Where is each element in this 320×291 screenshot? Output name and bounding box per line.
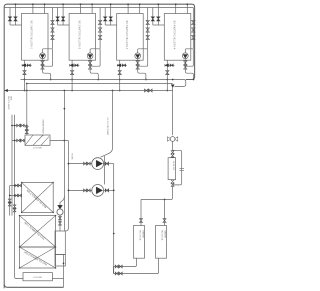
U1 pump [40, 53, 46, 59]
oil tank [23, 273, 52, 281]
svg-text:STEAM TRACE: STEAM TRACE [41, 120, 44, 135]
U3 inlet stem 2 with valve [110, 4, 112, 25]
U1 inlet stem 1 with valve [9, 8, 11, 26]
U4 drain valve [166, 71, 169, 75]
U1 inlet stem 2 with valve [15, 4, 17, 25]
HX feed drop pipe [26, 84, 28, 136]
filter feed pipe [172, 86, 174, 135]
chamber outlet pipe [63, 255, 65, 288]
tower inlet line B with valves [10, 195, 22, 197]
heat exchanger HX1 [25, 135, 50, 145]
U2 drain arrow [70, 64, 74, 67]
U3 left drain stem [119, 60, 121, 90]
U3 pump discharge loop [138, 49, 148, 61]
U2 inlet stem 2 with valve [62, 4, 64, 25]
branch to HX drop with valves [12, 125, 27, 127]
U1 drain arrow [22, 64, 26, 67]
chiller unit U3 vessel [117, 14, 144, 61]
oil filter F1 [168, 158, 176, 180]
filter inlet valves [171, 151, 174, 154]
pump B discharge valve [105, 189, 108, 192]
U4 pump discharge loop [185, 49, 193, 61]
svg-text:LOG WK: LOG WK [33, 148, 42, 150]
U3 pump [135, 53, 141, 59]
svg-text:NO.4 WATER CHILLER U-4: NO.4 WATER CHILLER U-4 [173, 21, 176, 50]
U4 inlet stem 2 with valve [157, 4, 159, 25]
HX outlet run [50, 140, 68, 142]
header H1 [21, 80, 186, 87]
U1 discharge riser with valves [52, 8, 54, 49]
HX feed double valve [25, 127, 28, 130]
U1 inlet horizontal into vessel [10, 24, 22, 26]
U2 pump discharge loop [90, 49, 100, 61]
supply header pipe outer loop [4, 4, 194, 288]
U3 right stem join [138, 60, 148, 66]
U4 left drain stem [166, 60, 168, 90]
U3 drain arrow [117, 64, 121, 67]
tower pump valves [59, 215, 61, 231]
U2 left drain stem [71, 60, 73, 90]
flow arrow into filter line [171, 85, 174, 88]
U3 feed riser A [127, 4, 129, 13]
svg-text:LINE: LINE [10, 96, 12, 101]
U1 left drain stem [24, 60, 26, 90]
heater L return run [113, 258, 136, 266]
M2 pipe elbow into chamber [65, 228, 68, 231]
H3 inline valve pair [145, 89, 149, 92]
U1 drain valve [23, 71, 26, 75]
svg-text:NO.1 WATER CHILLER U-1: NO.1 WATER CHILLER U-1 [30, 21, 33, 50]
U4 feed riser B [186, 4, 188, 13]
tower cell corner joints [21, 182, 22, 183]
tower drain stem C [9, 186, 11, 216]
header H3 [4, 90, 172, 92]
svg-text:NO.2 WATER CHILLER U-2: NO.2 WATER CHILLER U-2 [77, 21, 80, 50]
cooling tower cell 2 [20, 216, 56, 247]
pump B suction valve [84, 189, 87, 192]
svg-text:NO.1 W.OIL: NO.1 W.OIL [139, 231, 141, 241]
chiller unit U2 vessel [69, 14, 96, 61]
U3 vent branch valve [121, 64, 127, 66]
U2 vent branch valve [74, 64, 80, 66]
U1 feed riser B [44, 4, 46, 13]
header H2 [27, 83, 173, 85]
heater R return run [113, 258, 158, 273]
heater feed stem L [140, 200, 142, 226]
H3 flow arrow at frame [5, 89, 8, 92]
circulating pump B [92, 185, 104, 197]
bottom return pipe run [4, 285, 63, 288]
heater feed stem R [164, 200, 166, 226]
U3 drain valve [118, 71, 121, 75]
return drop elbow [112, 267, 114, 274]
U2 inlet stem 1 with valve [57, 8, 59, 26]
U4 inlet horizontal into vessel [153, 24, 165, 26]
filter outlet down pipe [172, 186, 174, 197]
U1 pump discharge loop [43, 49, 53, 61]
utility pipe B [11, 115, 13, 216]
filter bypass line [173, 150, 182, 185]
U1 vent branch valve [26, 64, 32, 66]
U3 discharge riser with valves [147, 8, 149, 49]
pipe A inline valves [13, 205, 16, 208]
svg-text:HEATER: HEATER [163, 231, 166, 239]
U3 inlet horizontal into vessel [105, 24, 117, 26]
bypass valve ticks [180, 168, 185, 170]
utility pipe A [15, 115, 24, 279]
tower pump circle [57, 209, 63, 215]
U2 discharge riser with valves [99, 8, 101, 49]
svg-text:NO.2 W.OIL: NO.2 W.OIL [161, 231, 163, 241]
cooling water pipe M1 [63, 91, 65, 232]
tower right chamber lower [55, 255, 65, 267]
pump B suction line [68, 189, 91, 191]
svg-text:50 WK: 50 WK [71, 154, 73, 161]
tower inline pump drop [60, 196, 64, 206]
U4 drain arrow [165, 64, 169, 67]
U2 pump [87, 53, 93, 59]
circulating pump A [92, 158, 104, 170]
pump A discharge valve [105, 162, 108, 165]
cooling tower cell 1 [22, 182, 54, 212]
cooling tower cell 3 [20, 247, 56, 268]
branch to HX inlet with valves [12, 140, 25, 142]
chiller unit U1 vessel [22, 14, 49, 61]
svg-text:LOG WK: LOG WK [33, 277, 42, 279]
U1 pump down stem with valves [43, 59, 51, 79]
inline meter symbol [167, 137, 177, 142]
chiller unit U4 vessel [164, 14, 191, 61]
U3 pump down stem with valves [138, 59, 146, 79]
heater H-R vessel [156, 226, 167, 259]
U3 inlet stem 1 with valve [104, 8, 106, 26]
svg-text:W.OIL FLT: W.OIL FLT [172, 161, 174, 171]
U4 pump down stem with valves [185, 59, 193, 79]
U2 feed riser B [91, 4, 93, 13]
pump A suction valve [84, 162, 87, 165]
svg-text:W.E P.G SUPP: W.E P.G SUPP [7, 96, 9, 110]
pump discharge down pipe [113, 164, 115, 274]
top header line 2 [4, 7, 193, 9]
U1 feed riser A [32, 4, 34, 13]
tower right chamber [55, 231, 65, 255]
svg-text:NO.3 WATER CHILLER U-3: NO.3 WATER CHILLER U-3 [125, 21, 128, 50]
filter outlet valves [171, 180, 174, 183]
cooling water pipe M2 [67, 141, 69, 229]
U1 right stem join [43, 60, 53, 66]
pump A suction line [68, 163, 91, 165]
U2 inlet horizontal into vessel [58, 24, 70, 26]
svg-text:HEATER: HEATER [141, 231, 144, 239]
chamber to tank run [52, 278, 63, 280]
heater H-L vessel [134, 226, 145, 259]
U2 right stem join [90, 60, 100, 66]
tower inlet line A with valves [10, 185, 22, 187]
U4 right stem join [185, 60, 193, 66]
U4 pump [182, 53, 188, 59]
U3 feed riser B [139, 4, 141, 13]
U4 discharge riser with valves [192, 8, 194, 49]
tower pump arrow [58, 205, 63, 209]
U4 vent branch valve [169, 64, 175, 66]
U2 drain valve [70, 71, 73, 75]
svg-text:0.3 T.G CRC PUMP: 0.3 T.G CRC PUMP [106, 118, 108, 136]
pump A-B connector [104, 156, 106, 185]
pump supply drop [101, 91, 113, 158]
stem C valves [8, 199, 11, 202]
U4 feed riser A [175, 4, 177, 13]
U2 feed riser A [80, 4, 82, 13]
U4 inlet stem 1 with valve [152, 8, 154, 26]
U2 pump down stem with valves [90, 59, 98, 79]
